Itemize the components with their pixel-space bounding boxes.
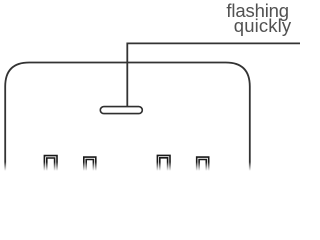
socket slot 3 outer xyxy=(157,155,170,176)
socket slot 3 inner xyxy=(160,158,168,176)
power strip body outline xyxy=(5,63,250,177)
socket slot 4 outer xyxy=(197,157,209,176)
socket slot 4 inner xyxy=(199,160,206,177)
socket slot 2 inner xyxy=(86,160,93,177)
svg-text:quickly: quickly xyxy=(234,15,292,36)
socket slot 2 outer xyxy=(84,157,96,176)
LED indicator pill xyxy=(100,107,142,114)
bottom fade-out xyxy=(0,162,300,171)
socket slot 1 inner xyxy=(47,158,55,176)
callout leader line xyxy=(127,43,300,106)
socket slot 1 outer xyxy=(44,156,57,176)
